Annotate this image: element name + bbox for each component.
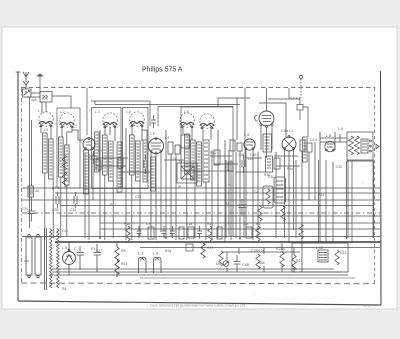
label column x196: [197, 142, 202, 186]
wire: [285, 150, 294, 243]
coil winding L1b: [49, 139, 54, 179]
tuning coil L3 section: [103, 113, 117, 128]
svg-text:L.2: L.2: [60, 110, 65, 114]
label column below B1: [84, 150, 89, 194]
earth terminal: [38, 74, 43, 76]
bottom centre chokes: [138, 243, 213, 273]
svg-text:L.B: L.B: [326, 134, 332, 138]
resistor R12: [335, 250, 339, 265]
svg-text:220: 220: [24, 259, 29, 263]
svg-text:C21: C21: [62, 229, 68, 233]
frame left border: [17, 72, 19, 301]
wire: [258, 152, 296, 238]
tube socket box with cross: [177, 163, 197, 183]
svg-text:C11: C11: [70, 208, 76, 212]
tuning coil L5 section: [180, 113, 194, 128]
svg-text:R4a: R4a: [165, 249, 171, 253]
cap C11: [74, 192, 77, 208]
wire: [183, 127, 211, 140]
coil winding L3b: [109, 141, 114, 181]
control block R30: [274, 177, 286, 203]
svg-text:L.9: L.9: [244, 133, 249, 137]
cap C18b: [239, 199, 246, 216]
resistor R18: [179, 227, 184, 239]
tube B4 detector: [244, 139, 255, 150]
wavetrap box: [40, 92, 52, 103]
cap near 92,157: [90, 151, 97, 164]
tube B3 oscillator-mixer: [259, 111, 274, 126]
resistor R21a: [208, 226, 212, 241]
wire: [62, 127, 72, 145]
wire: [347, 160, 374, 162]
svg-text:L.5: L.5: [184, 110, 189, 114]
svg-text:C4: C4: [165, 136, 169, 140]
svg-text:1.5: 1.5: [150, 132, 155, 136]
svg-text:Da: Da: [244, 222, 248, 226]
resistor R4b: [256, 254, 260, 269]
svg-text:L.3: L.3: [95, 110, 100, 114]
svg-text:L.Ta: L.Ta: [176, 160, 182, 164]
tuning coil L4 section: [130, 112, 144, 127]
wire right verticals: [326, 160, 374, 243]
antenna A: [23, 72, 29, 78]
rectifier tube B6: [63, 252, 76, 265]
cap Da2: [186, 244, 193, 251]
svg-text:R30: R30: [268, 175, 274, 179]
tube B1: [83, 138, 95, 150]
shield box section C: [92, 108, 122, 189]
svg-text:E1: E1: [91, 247, 95, 251]
wire: [116, 242, 118, 277]
wire: [41, 126, 51, 139]
wire grid cap B2: [142, 130, 147, 140]
svg-text:Philips 575 A: Philips 575 A: [142, 67, 183, 74]
coupling parts between B2 and oscillator: [168, 142, 173, 154]
wire: [151, 153, 161, 241]
small box: [118, 158, 123, 168]
wire: [68, 242, 70, 275]
small box: [274, 158, 280, 169]
lower nested bus lines: [52, 268, 334, 270]
resistor R1 coil: [28, 186, 34, 197]
wire: [105, 127, 115, 141]
resistor R14: [299, 224, 303, 239]
wire speaker drops: [348, 160, 373, 242]
junction dots: [88, 187, 347, 243]
tuning coil L5b section: [200, 114, 214, 129]
IF transformer box lower: [266, 156, 273, 172]
small box: [228, 162, 233, 171]
wire: [88, 154, 90, 241]
wire box to sections: [52, 96, 71, 108]
svg-text:R17: R17: [110, 203, 116, 207]
cap between D and E: [151, 115, 156, 128]
shield box oscillator section: [181, 107, 233, 171]
power supply bottom-left: [26, 228, 127, 291]
svg-text:C35: C35: [52, 208, 59, 212]
cap Da: [246, 227, 252, 238]
wire speaker feed: [320, 132, 347, 150]
wire antenna to box: [26, 85, 40, 97]
coil winding L2b: [65, 145, 70, 185]
cap C14: [197, 226, 202, 239]
frame bottom border: [18, 301, 381, 305]
svg-text:4µ5: 4µ5: [31, 98, 37, 102]
main HT bus thick: [55, 241, 381, 243]
svg-text:R4b: R4b: [258, 261, 265, 265]
coil winding L3a: [103, 135, 108, 175]
wire: [30, 97, 32, 228]
wire: [206, 130, 233, 242]
dashed frame top: [21, 87, 375, 89]
svg-text:R5: R5: [121, 249, 125, 253]
cap C35: [56, 192, 59, 208]
svg-text:4Ω: 4Ω: [35, 189, 40, 193]
mains switch S2: [35, 237, 41, 275]
cap: [144, 155, 147, 174]
svg-text:C4.5: C4.5: [310, 138, 317, 142]
dashed frame bottom: [21, 282, 375, 285]
svg-text:L.8: L.8: [153, 252, 158, 256]
scan speckle: [33, 97, 370, 294]
tube B5 output: [282, 137, 296, 151]
svg-text:L.4: L.4: [126, 110, 131, 114]
svg-text:C4B: C4B: [250, 153, 257, 157]
wire: [226, 152, 244, 240]
coil winding L5b: [191, 140, 196, 180]
wire runs y150-180: [96, 156, 300, 188]
svg-text:R12: R12: [340, 251, 347, 255]
svg-text:R21: R21: [296, 259, 303, 263]
resistor R4e: [281, 206, 285, 221]
svg-text:R21: R21: [121, 262, 127, 266]
small box: [96, 160, 101, 170]
svg-text:Deze schema's zijn gedownload: Deze schema's zijn gedownload van www.ra…: [150, 304, 245, 308]
svg-text:C28(10): C28(10): [251, 249, 264, 253]
cap: [242, 155, 245, 173]
cap C34: [28, 205, 36, 222]
wire riser to grid cap: [72, 130, 83, 140]
aerial switch box: [23, 89, 32, 97]
wire: [237, 98, 300, 140]
wire: [166, 130, 176, 240]
svg-text:36 3x: 36 3x: [363, 304, 372, 308]
label column below B2: [151, 157, 156, 191]
choke L7: [139, 258, 147, 274]
transformer core: [45, 228, 47, 290]
pickup terminal PU: [299, 75, 302, 78]
svg-text:L.1: L.1: [38, 109, 43, 113]
svg-text:C34: C34: [22, 207, 28, 211]
svg-text:R24: R24: [318, 193, 324, 197]
svg-text:C7: C7: [73, 125, 77, 129]
mid area small parts row y150-178: [230, 140, 235, 151]
wire: [187, 174, 195, 240]
svg-text:C27: C27: [96, 249, 102, 253]
coil winding L1a: [43, 133, 48, 173]
svg-text:R24a: R24a: [276, 247, 285, 251]
wire risers above B3: [245, 88, 289, 160]
svg-text:C2: C2: [44, 128, 48, 132]
svg-text:R4c: R4c: [287, 167, 293, 171]
smoothing cap C: [77, 246, 85, 270]
svg-text:R21: R21: [207, 222, 213, 226]
resistor box R1b: [263, 186, 273, 208]
resistor R1a: [148, 227, 154, 239]
wire: [85, 153, 93, 238]
output transformer / speaker box: [347, 132, 373, 160]
resistor R4g: [219, 251, 223, 266]
gramophone input parts: [297, 105, 303, 111]
svg-text:R21: R21: [207, 246, 213, 250]
resistor R16: [126, 226, 130, 241]
svg-text:C4a L.L: C4a L.L: [281, 129, 294, 133]
svg-text:C9: C9: [146, 222, 150, 226]
svg-text:L.6: L.6: [338, 127, 343, 131]
mid band extra detail: [62, 132, 347, 243]
cap C1a: [188, 227, 194, 238]
resistor left of B1 lower: [62, 172, 66, 187]
resistor R2H: [115, 260, 119, 275]
svg-text:C23: C23: [135, 195, 141, 199]
wire box down to coil: [42, 102, 46, 113]
coil winding L5a: [185, 134, 190, 174]
wire: [61, 177, 67, 238]
svg-text:C30: C30: [336, 165, 342, 169]
wire: [100, 130, 113, 240]
wire horizontal top runs: [91, 101, 240, 107]
wire: [132, 126, 142, 141]
svg-text:L13: L13: [248, 157, 254, 161]
output box right: [292, 243, 348, 272]
label column x94: [95, 132, 100, 172]
cap C12: [170, 226, 175, 239]
tick column x303: [303, 137, 308, 162]
svg-text:R16: R16: [124, 222, 130, 226]
meter M4: [223, 261, 229, 267]
cap C4b: [234, 255, 241, 272]
wire: [246, 150, 253, 241]
oscillator padder box: [203, 140, 209, 182]
wire: [126, 128, 140, 240]
resistor R24a: [280, 252, 284, 267]
wire: [227, 243, 294, 272]
svg-text:C4B: C4B: [242, 263, 250, 267]
resistor R4: [256, 226, 260, 241]
tuning coil L1 section: [39, 112, 53, 127]
tube B2: [148, 138, 163, 153]
svg-text:C4: C4: [254, 190, 258, 194]
coil winding L2a: [59, 137, 64, 177]
shield box section D: [123, 108, 149, 189]
left column wiring: [22, 97, 77, 228]
antenna input network: [23, 85, 72, 113]
transformer winding primary: [50, 229, 53, 288]
dashed frame right: [374, 88, 376, 283]
svg-text:14.2: 14.2: [210, 151, 217, 155]
wire oscillator top link: [218, 98, 237, 107]
svg-text:C1a: C1a: [186, 222, 192, 226]
cap C9: [162, 226, 167, 239]
shield box section 2: [57, 108, 80, 188]
svg-text:M4: M4: [216, 262, 221, 266]
svg-text:L.9: L.9: [62, 246, 67, 250]
svg-text:L.10: L.10: [316, 246, 323, 250]
frame right border: [380, 71, 383, 305]
wire: [222, 251, 300, 253]
label column x143: [143, 140, 147, 182]
right mid nested boxes: [226, 152, 374, 243]
resistor R21b: [292, 255, 296, 270]
coil winding L4b: [136, 141, 141, 181]
svg-text:S4: S4: [62, 287, 66, 291]
misc verticals upper mid: [87, 88, 308, 137]
transformer winding secondary: [57, 229, 60, 288]
label column x117: [117, 142, 122, 192]
cap C8: [137, 226, 142, 239]
bottom right cluster: [216, 243, 348, 272]
wire: [95, 101, 158, 126]
svg-text:R4: R4: [225, 202, 229, 206]
smoothing cap E1: [94, 244, 102, 272]
wire below B3: [261, 126, 272, 159]
resistor R5: [115, 247, 119, 262]
mains switch S1: [26, 237, 32, 275]
wire riser x87: [86, 88, 88, 135]
tube B4c driver: [325, 141, 335, 151]
coil L10: [318, 250, 328, 262]
wire: [302, 132, 320, 272]
IF transformer box: [263, 134, 272, 152]
choke L8: [154, 258, 162, 274]
dashed frame left: [21, 88, 23, 283]
resistor R4d: [258, 206, 262, 221]
wire: [45, 173, 53, 240]
tuning coil L2 section: [60, 113, 74, 128]
resistor R21c: [201, 243, 205, 258]
scattered small labels: [24, 109, 342, 263]
coil winding L4a: [130, 135, 135, 175]
resistor R19: [217, 227, 222, 239]
small box: [214, 150, 220, 165]
resistor left of B1: [62, 155, 66, 170]
svg-text:L.F.1: L.F.1: [52, 186, 60, 190]
long horizontal bus wires: [22, 187, 380, 189]
component row y225-240: [124, 222, 303, 241]
